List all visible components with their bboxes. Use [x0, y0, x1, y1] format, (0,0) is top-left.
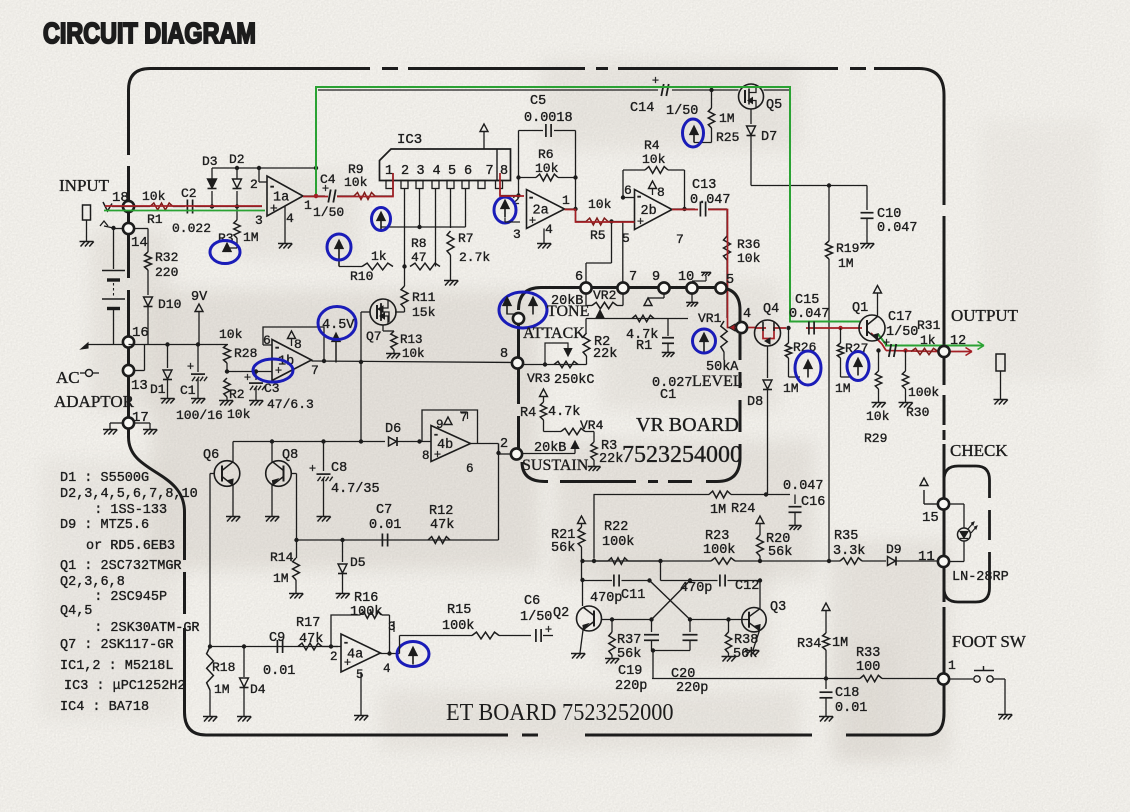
op-amp 2a	[527, 190, 565, 229]
connector 15	[923, 490, 925, 504]
capacitor C11 470p	[583, 580, 613, 582]
svg-text:4.7/35: 4.7/35	[331, 482, 380, 497]
resistor R18 1M	[207, 647, 214, 691]
ground C8	[318, 517, 323, 522]
svg-text:D6: D6	[385, 422, 401, 437]
svg-text:R7: R7	[458, 231, 474, 246]
svg-text:2: 2	[401, 164, 409, 179]
svg-text:R14: R14	[270, 550, 294, 565]
svg-text:C7: C7	[376, 503, 392, 518]
svg-text:9V: 9V	[191, 290, 208, 305]
battery	[113, 228, 115, 269]
svg-text:8: 8	[294, 337, 302, 352]
svg-text:470p: 470p	[680, 581, 712, 596]
svg-text:10k: 10k	[227, 407, 251, 422]
svg-text:1M: 1M	[832, 636, 848, 651]
svg-text:5: 5	[726, 273, 734, 288]
svg-text:+: +	[270, 200, 278, 215]
svg-text:1/50: 1/50	[666, 104, 698, 119]
svg-text:C9: C9	[269, 631, 285, 646]
svg-text:: 2SK30ATM-GR: : 2SK30ATM-GR	[78, 621, 200, 636]
ground R7	[445, 281, 450, 286]
connector 3 tone	[513, 313, 524, 324]
capacitor C1 100/16	[197, 345, 199, 373]
svg-text:-: -	[434, 427, 438, 441]
rail C18 R33	[652, 678, 860, 680]
svg-text:5: 5	[622, 231, 630, 246]
svg-text:5: 5	[356, 668, 364, 682]
green wire input overlay	[104, 210, 265, 212]
svg-text:1/50: 1/50	[520, 610, 552, 625]
svg-text:3: 3	[255, 213, 263, 228]
svg-text:100k: 100k	[908, 385, 939, 400]
svg-text:Q7: Q7	[366, 329, 382, 344]
capacitor C1 0.027 vr	[667, 319, 669, 337]
wire pin3 down	[419, 189, 421, 228]
svg-text:8: 8	[500, 347, 508, 362]
wire pin8 to 2a	[499, 189, 501, 196]
rail pins 3-6	[381, 226, 466, 228]
capacitor C18 0.01	[825, 679, 827, 690]
svg-text:Q7 : 2SK117-GR: Q7 : 2SK117-GR	[60, 638, 173, 653]
wire pin5 down	[450, 189, 452, 229]
resistor R32 220	[129, 228, 148, 230]
wires 17 to grounds	[110, 422, 123, 424]
svg-text:+: +	[434, 447, 441, 461]
transistor Q6	[214, 461, 240, 487]
capacitor C8 4.7/35	[323, 442, 325, 472]
svg-text:C14: C14	[630, 101, 654, 116]
test point pin rail	[377, 212, 385, 221]
ground input jack	[81, 242, 86, 247]
svg-text:Q1 : 2SC732TMGR: Q1 : 2SC732TMGR	[60, 559, 182, 574]
VR4 wiper	[574, 449, 576, 454]
svg-text:18: 18	[112, 190, 129, 206]
R16 feedback loop	[331, 615, 360, 647]
diode D2	[236, 191, 238, 207]
arrow at 16 rail	[81, 343, 88, 349]
wire input rail	[112, 206, 150, 208]
label ET BOARD 7523252000	[446, 699, 674, 726]
svg-text:R17: R17	[296, 616, 320, 631]
wire 13 to 16 rail	[134, 370, 145, 372]
svg-text:12: 12	[950, 334, 966, 349]
svg-text:or RD5.6EB3: or RD5.6EB3	[86, 539, 175, 554]
svg-text:D8: D8	[747, 395, 763, 410]
connector 10 grounds	[691, 294, 693, 303]
svg-text:-: -	[529, 189, 533, 204]
ground R37	[606, 659, 611, 664]
svg-text:-: -	[270, 178, 274, 193]
wire C19 C20 to rail	[652, 651, 654, 679]
resistor R2 10k	[224, 378, 230, 397]
blue test point 4a	[409, 647, 417, 656]
C5 feedback loop	[518, 131, 520, 178]
svg-text:D2,3,4,5,6,7,8,10: D2,3,4,5,6,7,8,10	[60, 487, 198, 502]
svg-text:0.047: 0.047	[877, 221, 918, 236]
wire D7 to C10	[751, 185, 862, 187]
wire pin4 down	[435, 189, 437, 267]
node D2 junction	[235, 204, 239, 208]
connector 17	[123, 417, 134, 428]
svg-text:1k: 1k	[920, 333, 936, 348]
svg-text:C8: C8	[331, 461, 347, 476]
LED LN-28RP	[949, 503, 964, 505]
diode D9	[888, 557, 896, 566]
svg-text:+: +	[529, 213, 536, 227]
svg-text:0.01: 0.01	[835, 701, 867, 716]
wire 2b output	[672, 208, 695, 210]
capacitor C19 220p	[649, 617, 653, 621]
svg-text:Q4: Q4	[763, 302, 779, 317]
ground 17 right	[144, 430, 149, 435]
ground C10	[861, 244, 866, 249]
connector 8	[512, 357, 523, 368]
resistor R37 56k	[611, 620, 613, 633]
resistor R5 10k	[586, 218, 608, 225]
4a ground	[360, 672, 362, 715]
svg-text:1M: 1M	[273, 571, 289, 586]
wire 2a output	[565, 208, 576, 210]
ground C16	[790, 525, 794, 530]
ground output jack	[995, 400, 1000, 405]
connector 4	[736, 322, 747, 333]
diode D10	[144, 297, 153, 306]
transistor Q1	[859, 315, 885, 341]
svg-text:R38: R38	[734, 633, 758, 648]
wire 16 rail left	[88, 344, 127, 346]
svg-text:D10: D10	[158, 297, 181, 312]
top rail black	[318, 89, 658, 91]
Q3 collector wire	[759, 581, 761, 609]
capacitor C2 0.022	[186, 200, 188, 214]
svg-text:R19: R19	[836, 241, 859, 256]
svg-text:7: 7	[676, 232, 684, 247]
svg-text:10k: 10k	[737, 251, 761, 266]
svg-text:8: 8	[500, 164, 508, 179]
capacitor C14 1/50	[661, 84, 663, 96]
resistor R20 56k	[756, 516, 764, 524]
ground R14	[290, 594, 295, 599]
test point 2a input	[501, 200, 509, 209]
svg-text:R16: R16	[354, 591, 378, 606]
svg-text:7: 7	[629, 270, 637, 285]
svg-text:7: 7	[486, 164, 494, 179]
svg-text:4: 4	[545, 222, 553, 237]
svg-text:ADAPTOR: ADAPTOR	[54, 392, 135, 411]
svg-text:Q2: Q2	[553, 606, 569, 621]
svg-text:1: 1	[562, 193, 570, 208]
VR top connectors	[580, 282, 591, 293]
svg-text:Q5: Q5	[766, 98, 782, 113]
svg-text:16: 16	[132, 325, 149, 341]
svg-text:+: +	[244, 370, 251, 384]
svg-text:3.3k: 3.3k	[833, 544, 865, 559]
svg-text:1: 1	[304, 198, 312, 213]
svg-text:C19: C19	[618, 664, 642, 679]
svg-text:R31: R31	[917, 318, 941, 333]
svg-text:15: 15	[922, 510, 939, 526]
svg-text:CHECK: CHECK	[950, 441, 1008, 460]
capacitor C6 1/50	[535, 629, 537, 642]
svg-text:IC1,2 : M5218L: IC1,2 : M5218L	[60, 659, 173, 674]
resistor R35 3.3k	[760, 560, 840, 562]
rail Q6 Q8 C8 to D6	[233, 441, 385, 443]
svg-text:10: 10	[678, 270, 694, 285]
svg-text:R4: R4	[644, 138, 660, 153]
svg-text:R29: R29	[864, 431, 887, 446]
svg-text:0.047: 0.047	[789, 307, 830, 322]
svg-text:R28: R28	[234, 346, 257, 361]
resistor R1 4.7k vr	[632, 315, 654, 321]
svg-text:R35: R35	[834, 529, 858, 544]
resistor R21 56k	[578, 516, 586, 524]
ET board border right	[928, 713, 944, 735]
svg-text:0.01: 0.01	[369, 518, 401, 533]
capacitor C16 0.047	[790, 494, 795, 496]
svg-text:0.022: 0.022	[172, 221, 211, 236]
output jack	[996, 354, 1005, 371]
rail R23 R35 D9	[583, 560, 712, 562]
Q1 collector to 9V	[877, 293, 879, 316]
svg-text:22k: 22k	[593, 347, 617, 362]
R4 feedback loop	[622, 170, 624, 198]
transistor Q2	[577, 606, 602, 631]
svg-text:+: +	[652, 73, 659, 87]
svg-text:0.01: 0.01	[263, 664, 295, 679]
svg-text:: 2SC945P: : 2SC945P	[78, 590, 167, 605]
VR2 wiper	[599, 316, 601, 319]
capacitor C20 220p	[683, 634, 698, 636]
svg-text:: 1SS-133: : 1SS-133	[78, 503, 167, 518]
resistor R30 100k	[905, 351, 907, 372]
resistor R4 10k	[645, 167, 668, 174]
test point blue circle R3	[223, 243, 231, 252]
diode D5	[342, 540, 344, 562]
svg-text:250kC: 250kC	[554, 373, 595, 388]
diode D6	[389, 437, 397, 446]
transistor Q8	[266, 461, 292, 487]
VR3 pot 250kC	[523, 364, 587, 366]
rail 16 to R28	[129, 344, 229, 346]
connector 11	[938, 556, 949, 567]
blue test point R27	[854, 358, 862, 367]
capacitor C4 1/50	[328, 190, 330, 203]
capacitor C5 0.0018	[545, 124, 547, 137]
svg-text:Q1: Q1	[852, 301, 868, 316]
svg-text:+: +	[322, 181, 329, 195]
svg-text:R32: R32	[155, 250, 178, 265]
svg-text:0.047: 0.047	[690, 193, 731, 208]
ground 17 left	[104, 430, 109, 435]
blue circle 4.5V	[318, 307, 356, 340]
ground C3	[250, 401, 255, 406]
svg-text:AC: AC	[56, 368, 80, 387]
red wire Q1 emitter to output	[871, 333, 886, 351]
svg-text:LEVEL: LEVEL	[692, 373, 743, 390]
Q2 emitter ground	[580, 630, 583, 653]
wire 1a output	[303, 195, 325, 197]
svg-text:ATTACK: ATTACK	[523, 325, 585, 342]
svg-text:R23: R23	[705, 529, 729, 544]
1a ground pin4	[284, 206, 286, 243]
Q3 base rail	[690, 619, 749, 621]
svg-text:1/50: 1/50	[886, 325, 918, 340]
svg-text:56k: 56k	[551, 541, 575, 556]
svg-text:1M: 1M	[710, 503, 726, 518]
red wire 1a out to IC3	[303, 173, 393, 197]
VR board outline	[519, 288, 718, 311]
svg-text:56k: 56k	[733, 647, 757, 662]
wire 1b output	[312, 361, 518, 363]
diode D7	[747, 126, 756, 135]
connector 2	[511, 448, 522, 459]
connector 14	[123, 223, 134, 234]
svg-text:6: 6	[575, 270, 583, 285]
diode D8	[763, 380, 772, 389]
resistor R12 47k	[428, 537, 450, 544]
IC3 pin stubs	[386, 181, 393, 189]
ground D1	[162, 399, 167, 404]
wire Q7 gate column	[361, 311, 370, 313]
resistor R36 10k	[724, 236, 731, 260]
svg-text:6: 6	[464, 164, 472, 179]
ground C1 vr	[663, 352, 667, 357]
svg-text:56k: 56k	[617, 647, 641, 662]
Q2 base rail	[602, 619, 652, 621]
svg-text:100/16: 100/16	[176, 408, 223, 423]
svg-text:C17: C17	[888, 310, 912, 325]
transistor Q7 FET	[404, 308, 406, 312]
svg-text:14: 14	[131, 235, 148, 251]
ET board border	[150, 67, 919, 70]
svg-text:VR3: VR3	[527, 371, 550, 386]
svg-text:1M: 1M	[783, 381, 799, 396]
wire R12 up to sustain line	[498, 444, 500, 541]
svg-text:R10: R10	[350, 269, 373, 284]
svg-text:R22: R22	[604, 520, 628, 535]
svg-text:R36: R36	[737, 237, 760, 252]
svg-text:ET BOARD 7523252000: ET BOARD 7523252000	[446, 699, 674, 726]
svg-text:-: -	[275, 339, 279, 354]
svg-text:C20: C20	[671, 667, 695, 682]
svg-text:R30: R30	[906, 405, 929, 420]
IC3 body	[380, 149, 511, 181]
resistor R8 47	[410, 263, 440, 270]
2b power arrow	[649, 181, 657, 189]
resistor R9 10k	[354, 193, 375, 200]
svg-text:C6: C6	[524, 594, 540, 609]
resistor R22 100k on rail	[608, 558, 628, 564]
ET board border left S-curve	[129, 437, 185, 512]
resistor R13 10k	[382, 325, 384, 331]
svg-text:D7: D7	[761, 130, 777, 145]
resistor R34 1M	[822, 603, 830, 611]
svg-text:4: 4	[286, 211, 294, 226]
capacitor C9 0.01	[276, 640, 278, 653]
svg-text:4: 4	[743, 307, 751, 322]
svg-text:R8: R8	[411, 236, 427, 251]
svg-text:100k: 100k	[442, 619, 474, 634]
red wire pin8 to 2a	[500, 173, 524, 196]
transistor Q4 FET	[755, 320, 781, 346]
svg-text:13: 13	[131, 378, 148, 394]
transistor Q3	[742, 608, 766, 632]
svg-text:1: 1	[385, 164, 393, 179]
svg-text:47: 47	[411, 250, 427, 265]
svg-text:D9: D9	[886, 542, 902, 557]
ET board border bottom	[185, 712, 207, 735]
ground C18	[820, 717, 825, 722]
svg-text:20kB: 20kB	[551, 294, 583, 309]
blue test point 1b plus	[253, 359, 293, 382]
ET board border left	[127, 90, 130, 437]
blue test point VR1	[700, 333, 708, 342]
resistor R7 2.7k	[447, 231, 454, 255]
4b feedback loop	[422, 410, 478, 444]
connector 13	[123, 365, 134, 376]
svg-text:6: 6	[466, 462, 474, 476]
svg-text:56k: 56k	[768, 545, 792, 560]
resistor R17 47k	[298, 643, 322, 650]
input tip arrow	[103, 202, 112, 211]
svg-text:Q8: Q8	[282, 448, 298, 463]
svg-text:7: 7	[311, 363, 319, 378]
resistor R27 1M	[840, 328, 842, 343]
svg-text:IC3: IC3	[397, 132, 422, 148]
blue circle tone	[499, 292, 547, 328]
ground R38	[723, 657, 728, 662]
ground R30	[900, 403, 905, 408]
svg-text:+: +	[637, 214, 644, 228]
ground D5	[337, 594, 342, 599]
svg-text:+: +	[187, 359, 194, 373]
svg-text:CIRCUIT DIAGRAM: CIRCUIT DIAGRAM	[43, 17, 256, 50]
rail R18 D4 C9 R17	[210, 646, 338, 648]
VR4 pot 20kB	[544, 431, 562, 433]
svg-text:R6: R6	[538, 147, 554, 162]
svg-text:8: 8	[657, 185, 665, 200]
svg-text:1M: 1M	[214, 682, 230, 697]
wire Q8 base down	[292, 473, 297, 475]
resistor R6 10k	[536, 174, 558, 181]
wire 2b plus down to connector 7	[622, 222, 624, 283]
green wire output overlay	[316, 87, 860, 322]
wire sleeve to 14	[114, 228, 123, 230]
wire C12 column top	[660, 561, 662, 581]
svg-text:0.047: 0.047	[783, 479, 824, 494]
resistor R19 1M	[828, 186, 830, 242]
svg-text:Q3: Q3	[770, 600, 786, 615]
op-amp 2b	[635, 190, 673, 230]
ground R3 vr	[589, 466, 593, 471]
svg-text:+: +	[309, 461, 316, 475]
resistor R24 1M	[709, 491, 731, 498]
svg-text:100: 100	[856, 660, 880, 675]
svg-text:+: +	[275, 363, 282, 377]
test point R25	[690, 126, 698, 135]
red wire VR1 to Q1	[728, 322, 737, 328]
svg-text:R24: R24	[731, 502, 755, 517]
svg-text:+: +	[344, 655, 351, 669]
svg-text:3: 3	[417, 164, 425, 179]
connector 16	[123, 336, 134, 347]
svg-text:100k: 100k	[602, 535, 634, 550]
svg-text:R13: R13	[400, 333, 423, 347]
svg-text:100k: 100k	[703, 543, 735, 558]
svg-text:47k: 47k	[430, 518, 454, 533]
VR1 pot 50kA	[724, 321, 728, 323]
